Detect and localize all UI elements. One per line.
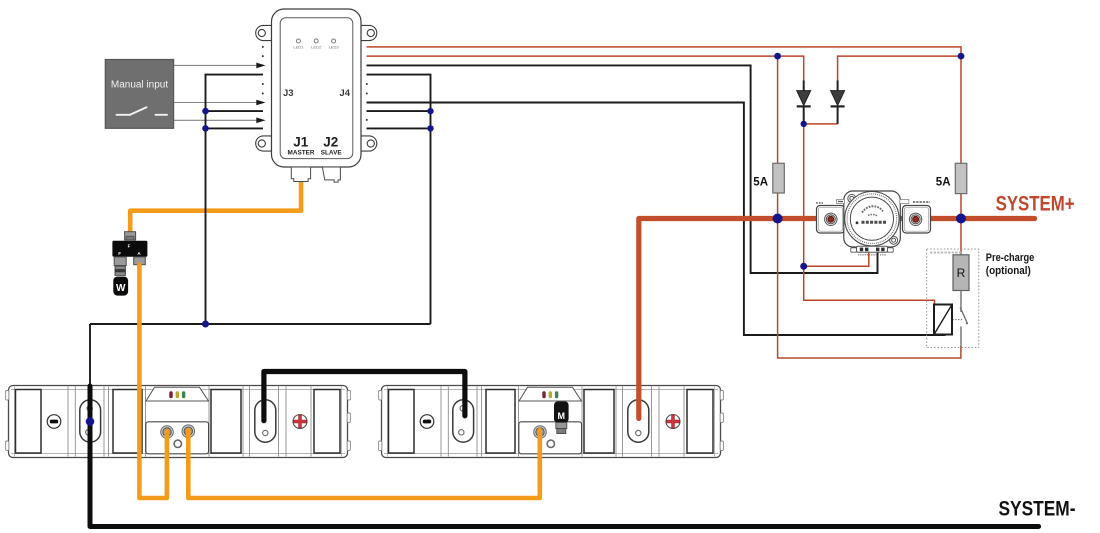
svg-text:F: F	[128, 243, 131, 248]
pin dot J3 row1	[262, 46, 264, 48]
mounting tab hole top-left	[258, 29, 265, 36]
diode D2	[831, 81, 845, 124]
wire black J4 row8 to bus junction	[367, 110, 431, 112]
switch right terminal block	[903, 206, 931, 234]
wire red J4 row2 to left fuse / diode D1 branch	[367, 56, 804, 80]
svg-text:LED2: LED2	[311, 44, 322, 49]
wire black J4 row10 to bus junction	[367, 127, 431, 129]
junction dot ground bus tee	[202, 321, 209, 328]
svg-text:M: M	[558, 411, 566, 421]
wire ground bus horizontal y=324	[90, 323, 431, 325]
cable SYSTEM+ thick wire from battery B2 positive	[639, 219, 1035, 419]
mounting tab top-left	[256, 25, 272, 40]
cable system minus from B1- oval down to SYSTEM-	[90, 386, 1039, 527]
svg-text:J3: J3	[283, 88, 294, 99]
switch face brand arc squiggle	[862, 206, 883, 212]
cable orange BMS link B1 terminal 2 to B2 terminal	[188, 430, 540, 498]
wire orange BMS cable from J1 connector down-left to T-fuse	[130, 180, 301, 233]
resistor R pre-charge	[953, 255, 969, 291]
wire black J4 row7 to pre-charge relay coil	[367, 103, 946, 336]
svg-text:SLAVE: SLAVE	[321, 150, 343, 157]
junction dot diode outputs	[801, 121, 807, 127]
switch bottom connector strip	[857, 246, 888, 252]
junction dot battery side of main switch	[773, 214, 783, 224]
controller inner face	[280, 18, 353, 159]
connector J2 plug below case	[322, 167, 340, 182]
junction dot system side of main switch	[956, 214, 966, 224]
junction dot red bus right (row1 / D2 / right fuse)	[958, 53, 965, 60]
battery B2 (right)	[379, 386, 724, 458]
wire ground bus left vertical down to battery 1	[89, 324, 91, 388]
connector J1 plug below case	[291, 167, 310, 182]
pin dot J4 row6	[366, 93, 368, 95]
svg-text:R: R	[957, 266, 966, 280]
mounting tab hole bottom-left	[258, 140, 265, 147]
LAYER: thin wires	[90, 47, 961, 388]
pin dot J3 row2	[262, 55, 264, 57]
arrowhead into J3 pin row 3	[256, 63, 265, 69]
battery B1 BMS terminal nut 2	[182, 425, 195, 438]
arrowhead into J3 pin row 7	[256, 100, 265, 106]
LAYER: big labels	[996, 192, 1076, 521]
battery B1 (left)	[6, 386, 351, 458]
switch screw bottom-right	[890, 236, 898, 244]
wire black J4 row4 down to ground bus	[367, 75, 431, 324]
switch left terminal stud	[825, 213, 837, 225]
wire red J4 row1 to right fuse / diode D2 branch	[367, 47, 962, 255]
pin dot J3 row6	[262, 93, 264, 95]
svg-text:5A: 5A	[936, 177, 951, 189]
pre-charge dashed outline box	[927, 249, 979, 348]
diode D1	[797, 81, 811, 124]
LAYER: junction dots	[86, 53, 966, 426]
switch bottom tiny text squiggle	[858, 254, 886, 256]
wire red diode output down to coil plus	[804, 124, 935, 305]
fuse holder left leg lower nut	[115, 266, 125, 275]
svg-text:J1: J1	[293, 134, 309, 149]
svg-text:Manual input: Manual input	[111, 80, 168, 91]
junction dot right bus row8	[427, 108, 433, 114]
wire red left 5A fuse branch + pre-charge bridge loop	[778, 56, 961, 358]
svg-text:5A: 5A	[753, 177, 768, 189]
LED3 indicator	[332, 39, 336, 43]
LED2 indicator	[314, 39, 318, 43]
svg-text:(optional): (optional)	[986, 265, 1031, 277]
LAYER: components	[105, 9, 1034, 348]
junction dot right bus row10	[427, 125, 433, 131]
mounting tab top-right	[361, 25, 377, 40]
wire manual-input line 3 (gray)	[174, 119, 257, 121]
junction dot left bus row10	[202, 125, 209, 132]
mounting tab hole top-right	[367, 29, 374, 36]
arrowhead into J3 pin row 9	[256, 118, 265, 124]
switch symbol inside manual input box	[117, 107, 168, 115]
mounting tab hole bottom-right	[367, 140, 374, 147]
pre-charge relay coil K1	[934, 305, 952, 335]
LED1 indicator	[296, 39, 300, 43]
junction dot coil plus / diode line	[800, 263, 807, 270]
fuse holder right leg nut	[134, 257, 146, 265]
mounting tab bottom-left	[256, 136, 272, 151]
svg-text:Pre-charge: Pre-charge	[986, 252, 1035, 264]
fuse holder T-connector: top nut	[125, 232, 136, 240]
wire red diode output bus D1-D2	[804, 123, 838, 125]
wire black J3 row10 stub	[206, 127, 264, 129]
switch face model text squiggle	[862, 221, 887, 224]
pin dot J4 row5	[366, 83, 368, 85]
cable battery series link B1+ to B2-	[264, 372, 465, 421]
mounting tab bottom-right	[361, 136, 377, 151]
wire black J4 row3 to battery switch coil minus	[367, 65, 878, 273]
switch left terminal block	[817, 206, 845, 234]
battery B2 M-plug cap	[554, 402, 569, 423]
pin dot J3 row5	[262, 83, 264, 85]
battery switch S1 (remote battery switch)	[816, 191, 962, 255]
svg-text:J2: J2	[323, 134, 338, 149]
wire black J3 row4 to ground bus vertical	[206, 75, 264, 324]
switch screw top-left	[848, 194, 856, 202]
junction dot red bus left (row2 / D1 / left fuse)	[774, 53, 781, 60]
svg-text:F: F	[118, 251, 121, 256]
switch right terminal stud	[909, 213, 921, 225]
LAYER: thick cables	[90, 219, 1039, 527]
fuse F1 5A body	[773, 163, 785, 193]
switch label squiggles beside blocks	[913, 201, 930, 203]
wire black J3 row8 stub	[206, 110, 264, 112]
wire red battery switch coil plus lead	[804, 250, 869, 266]
wire manual-input line 1 (gray)	[174, 64, 257, 66]
svg-text:LED3: LED3	[329, 44, 340, 49]
pre-charge switch contact	[953, 291, 969, 348]
controller case	[272, 9, 362, 167]
BMS controller U1 outer body	[256, 9, 377, 167]
pin dot J4 row9	[366, 119, 368, 121]
svg-text:W: W	[116, 283, 126, 294]
W terminator plug	[113, 277, 128, 296]
svg-text:J4: J4	[339, 88, 350, 99]
fuse holder T-connector body F	[112, 241, 147, 257]
svg-text:LED1: LED1	[293, 44, 304, 49]
cable orange BMS from T-fuse to B1 terminal 1	[139, 265, 167, 498]
fuse holder left leg nut	[114, 257, 126, 266]
svg-text:SYSTEM-: SYSTEM-	[999, 497, 1076, 521]
junction dot left bus row8	[202, 108, 209, 115]
svg-text:MASTER: MASTER	[288, 150, 315, 157]
manual input box	[105, 60, 173, 129]
fuse F2 5A body	[955, 163, 967, 193]
wire manual-input line 2 (gray)	[174, 102, 257, 104]
wire red diode D2 top branch	[838, 56, 961, 80]
junction dot battery B1 negative terminal	[86, 417, 95, 426]
switch top small tabs	[837, 200, 845, 204]
switch knob rings	[845, 192, 899, 246]
svg-text:SYSTEM+: SYSTEM+	[996, 192, 1075, 216]
switch main body	[844, 191, 901, 247]
